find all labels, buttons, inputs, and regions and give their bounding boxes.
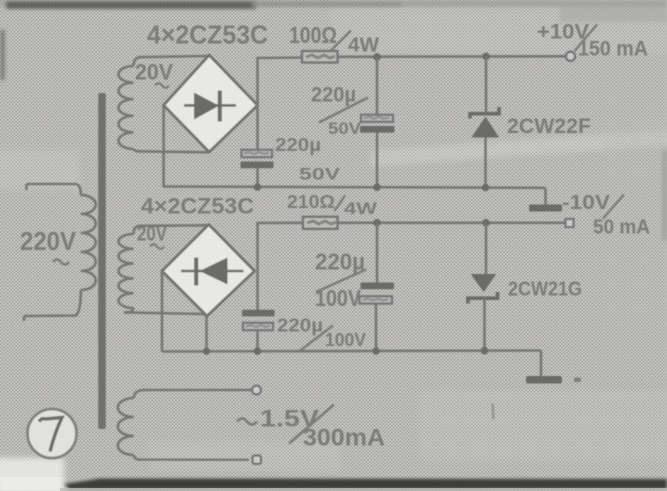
wire rail2 to zener D6 <box>485 223 488 274</box>
ground symbol upper <box>529 205 562 212</box>
junction rail2/C4 <box>373 219 381 227</box>
terminal 1.5V upper <box>252 386 261 395</box>
transformer primary winding <box>27 184 81 195</box>
wire winding to bridge1 AC bottom <box>137 151 208 152</box>
wire C2 to bus <box>376 133 379 188</box>
transformer secondary winding 20V upper <box>134 57 141 66</box>
label 220u / 50V for C2 <box>311 84 368 139</box>
terminal 1.5V lower <box>253 456 261 464</box>
resistor R2 210ohm 4W <box>303 217 338 229</box>
junction rail2/D6 <box>482 219 490 227</box>
resistor R1 100ohm 4W <box>302 51 338 63</box>
border frame bottom edge <box>0 458 667 491</box>
border frame top edge <box>0 0 667 240</box>
transformer secondary winding 20V lower <box>134 226 141 234</box>
wire bridge2 right corner riser to rail <box>258 223 304 271</box>
junction bus1/C1 <box>254 183 262 191</box>
wire rail to C2 <box>376 57 379 115</box>
stray mark <box>493 404 494 419</box>
transformer tertiary winding 1.5V <box>134 390 145 398</box>
figure number 7 <box>28 409 77 458</box>
wire +10V rail <box>338 55 566 58</box>
wire tertiary bottom lead <box>139 458 249 461</box>
wire 0V bus upper <box>164 187 546 188</box>
junction bus2/bridge2 <box>203 348 210 355</box>
ground symbol lower <box>526 376 581 384</box>
wire bridge1 DC+ down to C1 <box>256 105 259 150</box>
wire C3 to bus2 <box>256 330 259 351</box>
label -10V / 50mA <box>562 192 650 239</box>
wire zener D5 to bus <box>484 138 487 188</box>
wire 0V bus lower <box>162 351 541 352</box>
wire bridge1 DC+ riser to rail <box>258 58 304 106</box>
label 100ohm / 4W <box>289 22 379 57</box>
wire C1 to bus <box>256 168 259 187</box>
bridge rectifier D1 4x2CZ53C upper <box>164 55 258 152</box>
terminal -10V output <box>566 219 574 227</box>
wire winding to bridge2 AC bottom <box>124 312 207 316</box>
junction bus1/C2 <box>373 183 381 191</box>
junction rail1/C2 <box>373 53 381 61</box>
junction bus2/D6 <box>481 347 489 355</box>
label +10V / 150mA <box>537 21 648 61</box>
capacitor C3 220u 100V <box>242 310 275 330</box>
label ~1.5V / 300mA <box>237 405 385 452</box>
label 220u / 100V for C3 <box>277 316 366 352</box>
zener diode D5 2CW22F <box>470 107 499 138</box>
junction bus2/C4 <box>372 347 380 355</box>
transformer T1 core <box>98 93 106 429</box>
wire C4 to bus2 <box>375 304 378 352</box>
label 210ohm / 4W <box>287 192 378 218</box>
wire bridge2 right corner down to C3 <box>256 271 259 310</box>
zener diode D6 2CW21G <box>468 274 498 304</box>
capacitor C2 220u 50V <box>360 115 395 133</box>
junction bus2/C3 <box>254 347 262 355</box>
wire tertiary top lead <box>143 389 252 391</box>
wire bridge2 bottom corner to bus2 <box>205 316 208 352</box>
wire rail to zener D5 <box>485 56 488 112</box>
wire bus2 to ground2 <box>540 351 543 378</box>
wire bridge2 left corner to bus2 <box>161 271 164 352</box>
wire winding to bridge1 AC top <box>138 56 207 57</box>
wire -10V rail <box>338 222 566 225</box>
terminal +10V output <box>566 52 575 61</box>
capacitor C4 220u 100V <box>360 283 395 304</box>
wire bridge1 DC- to bus <box>162 105 165 187</box>
wire rail to C4 <box>376 223 379 283</box>
wire bus to ground1 <box>544 188 547 206</box>
wire zener D6 to bus2 <box>483 298 486 351</box>
bridge rectifier D2 4x2CZ53C lower <box>162 225 255 317</box>
label 220u / 100V for C4 <box>315 249 366 312</box>
capacitor C1 220u 50V <box>241 150 274 169</box>
wire winding to bridge2 AC top <box>138 224 207 227</box>
junction rail1/D5 <box>482 53 490 61</box>
label 220u 50V for C1 <box>275 135 341 184</box>
junction bus1/D5 <box>482 184 490 192</box>
